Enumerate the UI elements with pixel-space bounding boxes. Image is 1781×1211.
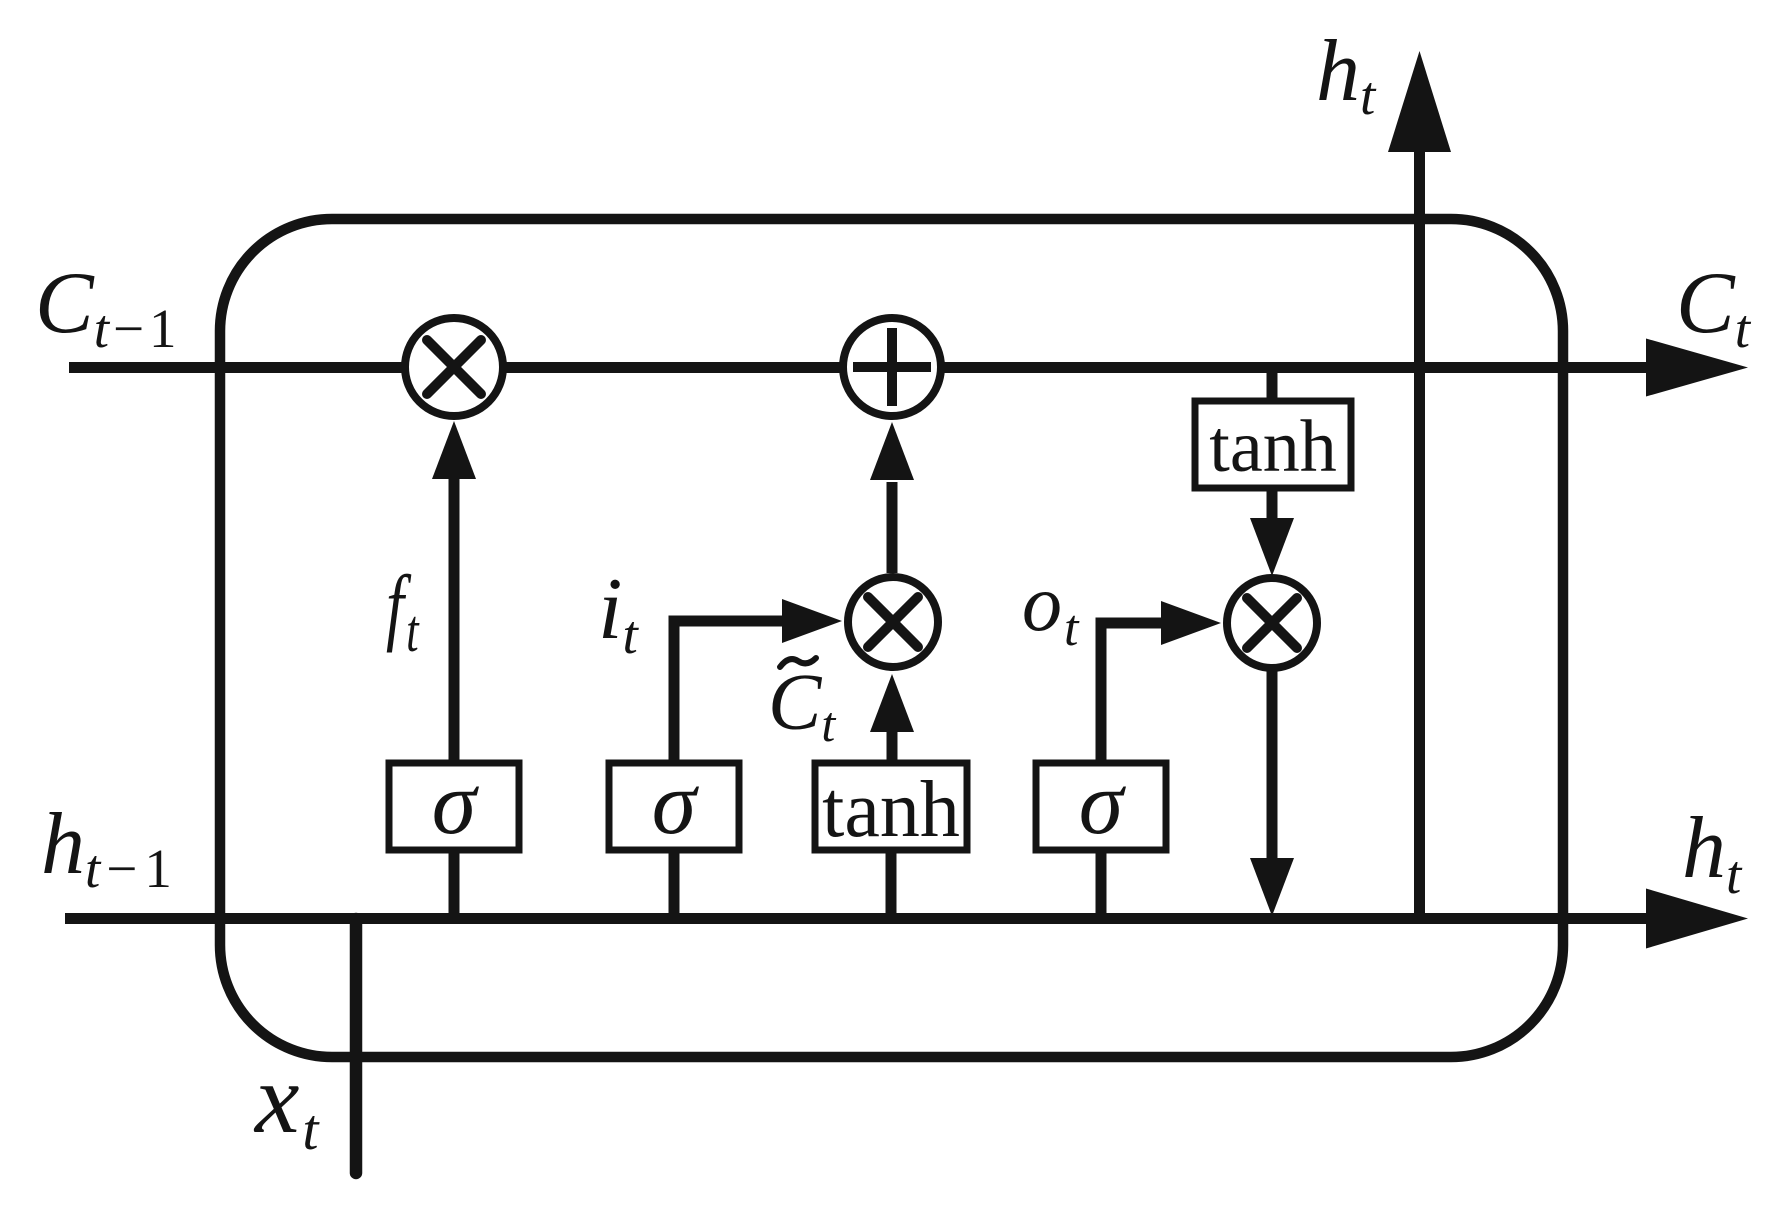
wire candidate tanh2 up to multiply2 [887, 730, 898, 763]
wire output gate below sigma3 [1096, 850, 1107, 920]
arrowhead C_t output [1646, 339, 1748, 397]
wire output gate o_t elbow to multiply3 [1101, 623, 1163, 763]
wire multiply3 down to h line [1267, 668, 1278, 858]
wire multiply2 up to add node [887, 482, 898, 573]
gate box tanh2 (candidate) [815, 763, 967, 850]
wire C (cell state line, top horizontal) [69, 362, 1650, 373]
wire forget gate below sigma1 [449, 850, 460, 920]
svg-text:tanh: tanh [1209, 406, 1336, 488]
wire C line down into tanh1 [1267, 367, 1278, 401]
wire h_t vertical (output up) [1414, 150, 1425, 919]
wire forget gate sigma1 up to multiply1 [449, 476, 460, 763]
wire x_t input vertical [350, 919, 363, 1173]
gate box sigma3 (output) [1036, 763, 1166, 850]
multiply node 2 (candidate x input) [848, 577, 938, 667]
arrowhead into multiply1 [432, 421, 476, 479]
arrowhead into add node [870, 422, 914, 480]
svg-text:σ: σ [432, 754, 480, 853]
arrowhead down into h line [1250, 858, 1294, 916]
arrowhead o_t into multiply3 [1161, 601, 1221, 645]
add node [843, 318, 941, 416]
tanh box top (cell output squash) [1195, 401, 1351, 488]
arrowhead i_t into multiply2 [782, 599, 842, 643]
multiply node 1 (forget) [405, 318, 503, 416]
svg-text:σ: σ [652, 754, 700, 853]
LSTM cell body (rounded rectangle) [220, 219, 1563, 1057]
svg-text:σ: σ [1079, 754, 1127, 853]
multiply node 3 (output) [1227, 578, 1317, 668]
arrowhead candidate into multiply2 [870, 674, 914, 732]
arrowhead h_t top output [1388, 51, 1451, 152]
gate box sigma1 (forget) [389, 763, 519, 850]
wire h (hidden state line, bottom horizontal) [65, 913, 1650, 924]
arrowhead h_t right output [1646, 889, 1748, 949]
wire tanh1 down to multiply3 [1267, 488, 1278, 520]
wire input gate below sigma2 [669, 850, 680, 920]
wire candidate below tanh2 [886, 850, 897, 920]
wire input gate i_t elbow to multiply2 [674, 621, 784, 763]
svg-text:tanh: tanh [822, 766, 960, 854]
arrowhead tanh1 into multiply3 [1250, 518, 1294, 576]
gate box sigma2 (input) [609, 763, 739, 850]
